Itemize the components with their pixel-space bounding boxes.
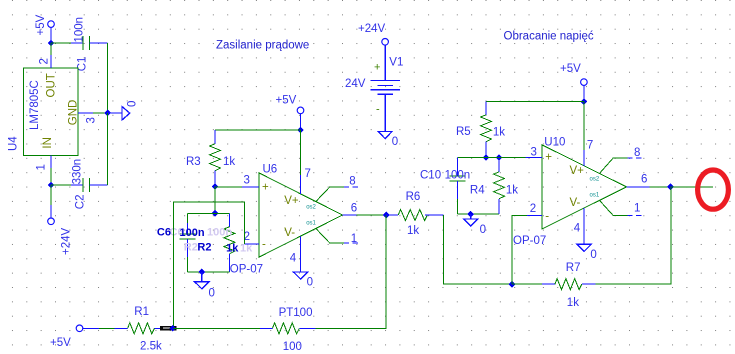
wire node to PT100 xyxy=(173,327,260,329)
svg-text:V-: V- xyxy=(570,197,581,209)
svg-text:0: 0 xyxy=(209,288,215,300)
svg-text:C6: C6 xyxy=(157,227,171,239)
svg-text:1: 1 xyxy=(634,203,640,215)
svg-text:+5V: +5V xyxy=(276,95,297,107)
svg-text:0: 0 xyxy=(307,276,313,288)
U6 pin 2 xyxy=(244,231,259,244)
wire +5V node to R3 xyxy=(215,129,301,131)
svg-text:0: 0 xyxy=(392,136,398,148)
svg-text:2.5k: 2.5k xyxy=(140,341,162,353)
svg-text:U10: U10 xyxy=(544,136,565,148)
svg-text:1k: 1k xyxy=(407,225,419,237)
svg-text:R7: R7 xyxy=(566,262,581,274)
svg-text:-: - xyxy=(545,211,549,223)
node (51,185) xyxy=(48,182,55,189)
svg-text:1: 1 xyxy=(36,164,48,170)
svg-text:R4: R4 xyxy=(470,185,485,197)
svg-text:24V: 24V xyxy=(345,78,366,90)
svg-text:100n: 100n xyxy=(180,227,205,239)
power terminal +5V (top-left) xyxy=(35,14,54,35)
svg-text:+5V: +5V xyxy=(560,63,581,75)
svg-text:V1: V1 xyxy=(389,56,403,68)
svg-text:0: 0 xyxy=(480,224,486,236)
svg-text:0: 0 xyxy=(590,249,596,261)
svg-text:U4: U4 xyxy=(8,136,20,151)
R2C6 bottom rail xyxy=(187,271,229,273)
node (201.8,271.9) xyxy=(198,269,205,276)
U10 pin 3 xyxy=(525,147,542,159)
op-amp U6 OP-07 xyxy=(230,164,343,276)
resistor R4 1k xyxy=(470,158,518,215)
node (386.2,215) xyxy=(383,212,390,219)
svg-text:8: 8 xyxy=(349,175,355,187)
svg-text:1k: 1k xyxy=(506,185,518,197)
wire R7 to U10 output node xyxy=(596,187,672,284)
svg-text:100n: 100n xyxy=(74,17,86,43)
C10/R4 bottom rail xyxy=(457,213,499,215)
feedback wire U6 pin2 to R1/PT100 node xyxy=(173,202,244,328)
node (583.9,101.6) xyxy=(581,98,588,105)
ground 0 (under V1) xyxy=(378,131,398,148)
wire terminal to node xyxy=(300,114,302,130)
node (215,213.3) xyxy=(212,210,219,217)
svg-text:+24V: +24V xyxy=(358,23,386,35)
svg-text:1k: 1k xyxy=(226,243,239,255)
power terminal +5V (bottom-left) xyxy=(50,325,83,349)
ground 0 (under C10R4) xyxy=(464,214,487,236)
svg-text:+: + xyxy=(262,182,269,194)
svg-text:100n: 100n xyxy=(445,170,471,182)
svg-text:-: - xyxy=(376,104,380,116)
wire terminal to node xyxy=(50,28,52,44)
ground 0 (U6 pin 4) xyxy=(293,272,313,288)
U10 pin 2 xyxy=(527,203,542,216)
svg-text:1k: 1k xyxy=(567,297,579,309)
svg-text:os2: os2 xyxy=(306,204,316,210)
ground 0 (under R2C6) xyxy=(195,272,215,300)
svg-text:R2: R2 xyxy=(197,242,211,254)
svg-text:os2: os2 xyxy=(590,176,600,182)
pin 2 of U4 xyxy=(38,43,51,68)
svg-text:Obracanie napięć: Obracanie napięć xyxy=(504,31,594,43)
capacitor C1 100n xyxy=(71,17,108,71)
battery V1 24V xyxy=(345,23,403,131)
U6 pin 4 xyxy=(290,236,301,272)
U6 pin 6 output xyxy=(343,203,358,216)
ground 0 (U10 pin 4) xyxy=(577,244,597,261)
capacitor C6 100n xyxy=(179,213,195,272)
wire terminal to R1 xyxy=(83,327,115,329)
ground 0 (right-pointing, at U4 GND) xyxy=(108,101,139,120)
node (300.5,130) xyxy=(297,127,304,134)
resistor PT100 100 xyxy=(260,307,315,353)
wire node to R7 xyxy=(512,283,542,285)
svg-text:7: 7 xyxy=(587,140,593,152)
U6 pin 7 xyxy=(300,130,311,194)
wire output to node xyxy=(650,186,671,188)
svg-text:3: 3 xyxy=(244,174,250,186)
resistor R3 1k xyxy=(186,130,235,187)
node (215,186.6) xyxy=(212,183,219,190)
wire node to U6 pin3 xyxy=(215,186,242,188)
wire C2 up to gnd net xyxy=(107,113,109,185)
capacitor C2 330n xyxy=(71,159,108,209)
svg-text:3: 3 xyxy=(531,147,537,159)
svg-text:os1: os1 xyxy=(306,221,316,227)
svg-text:GND: GND xyxy=(68,100,80,126)
svg-text:+: + xyxy=(545,152,552,164)
resistor R5 1k xyxy=(456,102,505,158)
svg-text:R2: R2 xyxy=(184,242,198,254)
wire node to C2 xyxy=(51,184,71,186)
node (670.5,186.9) xyxy=(667,184,674,191)
node (51,43) xyxy=(48,40,55,47)
U10 pin 4 xyxy=(574,208,584,244)
svg-text:OP-07: OP-07 xyxy=(230,264,263,276)
svg-text:330n: 330n xyxy=(72,159,84,185)
R2C6 top rail xyxy=(187,212,229,214)
resistor R6 1k xyxy=(386,191,443,237)
svg-text:Zasilanie prądowe: Zasilanie prądowe xyxy=(216,40,309,52)
svg-text:100: 100 xyxy=(283,341,302,353)
svg-text:R1: R1 xyxy=(134,306,149,318)
voltage regulator U4 LM7805C xyxy=(8,68,80,156)
svg-text:PT100: PT100 xyxy=(279,307,313,319)
svg-text:LM7805C: LM7805C xyxy=(29,80,41,130)
pin 3 of U4 xyxy=(78,113,108,124)
U10 pin 7 xyxy=(584,102,593,166)
svg-text:4: 4 xyxy=(574,223,581,235)
wire terminal to node xyxy=(583,85,585,101)
svg-text:7: 7 xyxy=(305,168,311,180)
U10 pin 8 xyxy=(599,147,641,174)
wire C1 down to gnd net xyxy=(107,43,109,113)
wire +5V node to R5 xyxy=(486,101,584,103)
svg-text:V+: V+ xyxy=(570,165,585,177)
svg-text:2: 2 xyxy=(530,203,536,215)
capacitor C10 100n xyxy=(420,158,470,215)
wire R6 to inverting node of U10 xyxy=(443,215,512,284)
svg-text:V+: V+ xyxy=(284,195,299,207)
svg-text:C10: C10 xyxy=(420,170,441,182)
svg-text:100n: 100n xyxy=(207,227,232,239)
wire node to output end xyxy=(671,186,714,188)
U6 pin 1 xyxy=(316,229,358,246)
svg-text:+24V: +24V xyxy=(61,227,73,255)
power terminal +24V (bottom-left) xyxy=(48,218,73,255)
wire R5 node to C10 xyxy=(457,157,486,159)
svg-text:+5V: +5V xyxy=(50,337,71,349)
black wire artifact xyxy=(160,326,177,330)
U6 pin 8 xyxy=(316,175,358,201)
resistor R1 2.5k xyxy=(115,306,169,353)
power terminal +5V (U10 supply) xyxy=(560,63,587,85)
wire node up to U10 pin2 xyxy=(512,216,527,285)
node (486,157.5) xyxy=(483,154,490,161)
svg-text:OP-07: OP-07 xyxy=(513,235,546,247)
U10 pin 6 output xyxy=(627,173,650,187)
svg-text:1: 1 xyxy=(351,233,357,245)
node (499,157.5) xyxy=(496,154,503,161)
wire output to node xyxy=(357,214,387,216)
svg-text:IN: IN xyxy=(42,137,54,149)
node (107.6,113) xyxy=(104,110,111,117)
svg-text:OUT: OUT xyxy=(45,73,57,97)
svg-text:V-: V- xyxy=(284,227,295,239)
svg-text:+: + xyxy=(374,62,380,74)
wire PT100 to U6 output node xyxy=(315,215,386,328)
pin 1 of U4 xyxy=(36,156,52,186)
wire node down to R2/C6 rail xyxy=(214,187,216,214)
wire node to C1 xyxy=(51,42,71,44)
resistor R2 1k xyxy=(224,213,235,272)
svg-text:os1: os1 xyxy=(590,193,600,199)
svg-text:U6: U6 xyxy=(263,164,278,176)
svg-text:2: 2 xyxy=(38,58,50,64)
svg-text:3: 3 xyxy=(86,117,98,123)
svg-text:C2: C2 xyxy=(75,194,87,209)
op-amp U10 OP-07 xyxy=(513,136,627,247)
node (512,284.2) xyxy=(509,281,516,288)
svg-text:8: 8 xyxy=(634,147,640,159)
wire R5 node to U10 pin3 xyxy=(486,157,525,159)
svg-text:6: 6 xyxy=(641,173,647,185)
svg-text:1k: 1k xyxy=(493,126,505,138)
U10 pin 1 xyxy=(599,200,641,215)
svg-text:R5: R5 xyxy=(456,126,471,138)
svg-text:-: - xyxy=(262,239,266,251)
svg-text:+5V: +5V xyxy=(35,14,47,35)
svg-text:0: 0 xyxy=(127,101,139,107)
svg-text:R6: R6 xyxy=(406,191,421,203)
node (470.6,214.2) xyxy=(467,211,474,218)
svg-text:1k: 1k xyxy=(223,156,235,168)
svg-text:R3: R3 xyxy=(186,156,201,168)
resistor R7 1k xyxy=(542,262,596,309)
wire node down to +24V terminal xyxy=(50,185,52,218)
svg-text:6: 6 xyxy=(351,203,357,215)
red annotation ellipse xyxy=(698,170,729,209)
U6 pin 3 xyxy=(242,174,259,187)
svg-text:4: 4 xyxy=(290,253,297,265)
node (172.8,328.3) xyxy=(169,325,176,332)
power terminal +5V (U6 supply) xyxy=(276,95,304,114)
